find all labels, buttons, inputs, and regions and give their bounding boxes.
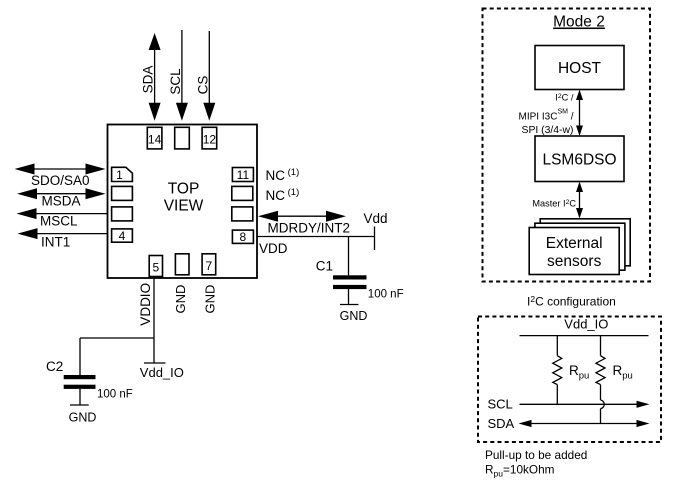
pin 4 — [112, 229, 133, 243]
svg-text:GND: GND — [340, 309, 368, 323]
pin 2 — [112, 186, 133, 200]
svg-text:12: 12 — [203, 133, 217, 147]
svg-text:Mode 2: Mode 2 — [553, 14, 605, 31]
pin 10 — [232, 186, 253, 200]
block HOST — [535, 46, 624, 90]
capacitor C2 — [46, 359, 133, 400]
signal SDO/SA0 arrow — [15, 164, 106, 189]
svg-text:1: 1 — [116, 168, 123, 182]
signal SDA arrow — [141, 33, 161, 121]
svg-text:Rpu: Rpu — [613, 363, 633, 382]
node Vdd terminal — [364, 211, 388, 250]
svg-text:Rpu: Rpu — [569, 363, 589, 382]
svg-text:Pull-up to be added: Pull-up to be added — [485, 448, 587, 462]
svg-text:GND: GND — [203, 285, 218, 314]
resistor Rpu2 — [596, 336, 633, 424]
svg-text:SCL: SCL — [168, 68, 183, 95]
resistor Rpu1 — [553, 336, 590, 405]
svg-text:4: 4 — [119, 229, 126, 243]
pin 11 — [232, 168, 253, 183]
svg-text:Vdd_IO: Vdd_IO — [140, 365, 184, 380]
svg-text:VIEW: VIEW — [164, 198, 204, 215]
pin 3 — [112, 207, 133, 221]
pin 9 — [232, 207, 253, 221]
bus arrow LSM6DSO to sensors (Master I2C) — [532, 182, 583, 219]
svg-text:SDA: SDA — [141, 66, 156, 94]
svg-text:SCL: SCL — [488, 397, 513, 412]
svg-text:SDO/SA0: SDO/SA0 — [31, 173, 90, 188]
svg-text:NC (1): NC (1) — [266, 167, 300, 183]
signal MDRDY/INT2 arrow — [258, 211, 350, 236]
svg-text:5: 5 — [152, 261, 159, 275]
net VDD wire from pin 8 — [257, 237, 375, 256]
svg-text:sensors: sensors — [547, 253, 602, 270]
label I2C / MIPI I3C SM / SPI (3/4-w) — [519, 92, 574, 135]
svg-text:LSM6DSO: LSM6DSO — [542, 151, 616, 168]
svg-text:VDD: VDD — [259, 241, 288, 256]
block External sensors stack — [529, 219, 630, 275]
signal SCL arrow — [168, 30, 188, 121]
note pull-up — [485, 448, 587, 479]
signal INT1 arrow — [18, 228, 108, 249]
net Vdd_IO rail — [520, 317, 649, 336]
pin 1 — [112, 167, 133, 182]
svg-text:VDDIO: VDDIO — [138, 283, 153, 326]
svg-text:Vdd_IO: Vdd_IO — [564, 317, 608, 332]
svg-text:11: 11 — [237, 168, 250, 182]
bus arrow HOST to LSM6DSO — [576, 90, 583, 137]
svg-text:HOST: HOST — [558, 60, 602, 77]
svg-text:External: External — [546, 235, 603, 252]
svg-text:MSDA: MSDA — [42, 194, 81, 209]
IC U1 LSM6DSO package body TOP VIEW — [108, 125, 258, 279]
svg-text:GND: GND — [173, 285, 188, 314]
svg-text:SDA: SDA — [488, 416, 515, 431]
signal MSDA arrow — [17, 188, 106, 208]
ground GND at C2 — [69, 389, 97, 424]
svg-text:MIPI I3CSM /: MIPI I3CSM / — [519, 108, 574, 122]
svg-text:100 nF: 100 nF — [97, 388, 133, 400]
I2C configuration dashed enclosure — [478, 317, 661, 443]
svg-text:SPI (3/4-w): SPI (3/4-w) — [522, 125, 574, 136]
svg-text:CS: CS — [195, 76, 210, 95]
svg-text:Vdd: Vdd — [364, 211, 388, 226]
wire branch VDDIO to C2 — [80, 338, 154, 375]
pin 7 — [202, 254, 216, 275]
svg-text:NC (1): NC (1) — [266, 187, 300, 203]
block LSM6DSO — [535, 136, 624, 182]
svg-text:INT1: INT1 — [41, 234, 70, 249]
pin 13 — [175, 127, 190, 149]
net SCL line — [488, 397, 650, 412]
Mode 2 dashed enclosure — [483, 9, 651, 282]
net VDDIO wire from pin 5 — [138, 278, 154, 363]
pin 14 — [147, 127, 162, 149]
wire VDD junction to C1 — [348, 237, 350, 276]
signal CS arrow — [195, 31, 215, 121]
svg-text:100 nF: 100 nF — [368, 288, 404, 300]
svg-text:MSCL: MSCL — [40, 214, 78, 229]
signal MSCL arrow — [17, 208, 108, 229]
svg-text:C2: C2 — [46, 359, 63, 374]
pin 12 — [202, 127, 217, 149]
svg-text:I2C /: I2C / — [555, 92, 574, 102]
ground GND at C1 — [340, 289, 368, 323]
svg-text:I2C configuration: I2C configuration — [527, 294, 616, 309]
node Vdd_IO terminal — [140, 363, 184, 380]
pin 8 — [232, 230, 253, 244]
svg-text:Master I2C: Master I2C — [532, 199, 576, 209]
svg-text:C1: C1 — [316, 259, 333, 274]
svg-text:Rpu=10kOhm: Rpu=10kOhm — [485, 463, 555, 479]
svg-text:TOP: TOP — [168, 181, 200, 198]
net SDA line — [488, 416, 650, 431]
capacitor C1 — [316, 259, 404, 301]
svg-text:MDRDY/INT2: MDRDY/INT2 — [268, 221, 351, 236]
pin 6 — [175, 254, 189, 275]
svg-text:14: 14 — [148, 133, 162, 147]
svg-text:GND: GND — [69, 410, 97, 424]
svg-text:8: 8 — [240, 230, 247, 244]
svg-text:7: 7 — [206, 259, 213, 273]
pin 5 — [149, 256, 162, 277]
